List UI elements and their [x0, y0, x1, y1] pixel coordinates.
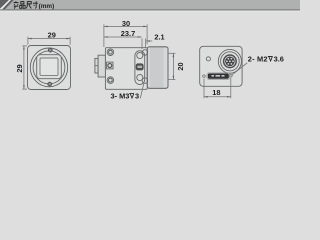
dimension 30 [104, 24, 147, 47]
LED hole [206, 57, 210, 61]
lens mount inner circle [33, 51, 65, 84]
svg-text:2.1: 2.1 [154, 33, 164, 42]
side screw hole top-left [107, 49, 114, 56]
svg-text:30: 30 [122, 19, 130, 28]
M2 hole left [203, 75, 206, 78]
sensor window [40, 58, 58, 75]
M3 hole bottom [137, 74, 143, 80]
front screw top [48, 48, 53, 53]
svg-text:(mm): (mm) [39, 3, 55, 10]
svg-text:3.6: 3.6 [274, 55, 284, 64]
side small square + hole [107, 62, 113, 69]
svg-text:20: 20 [176, 62, 185, 70]
page background [0, 0, 300, 110]
产 [14, 1, 19, 8]
label 2- M2 depth 3.6 [248, 55, 284, 64]
front body [28, 46, 71, 90]
dimension 20 [169, 53, 176, 79]
dimension 29 (front height) [22, 46, 27, 89]
lens section shading [150, 47, 164, 87]
label 3- M3 depth 3 [111, 84, 144, 101]
svg-text:29: 29 [48, 30, 56, 39]
dimension 2.1 [146, 38, 153, 48]
rear connector protrusion inner step [98, 55, 105, 77]
svg-text:3: 3 [135, 92, 139, 101]
lens mount outer circle [30, 48, 67, 87]
connector core with pins [225, 57, 235, 67]
寸 [33, 1, 38, 8]
back body [200, 46, 242, 86]
M3 hole top [137, 52, 143, 58]
side body [105, 48, 147, 90]
front plate hole bottom [142, 78, 148, 84]
dimension 29 (front width) [28, 37, 70, 45]
svg-text:2- M2: 2- M2 [248, 55, 268, 64]
front plate hole top [142, 50, 148, 56]
dimension 18 [204, 78, 231, 98]
header bottom rule [0, 9, 300, 10]
svg-text:23.7: 23.7 [121, 29, 135, 38]
dimension 23.7 [104, 37, 142, 49]
svg-text:18: 18 [212, 88, 220, 97]
port bezel [207, 73, 230, 80]
connector rings [218, 49, 241, 73]
center dark plug [136, 63, 144, 70]
M2 hole right [230, 75, 233, 78]
尺 [26, 2, 31, 9]
svg-text:3- M3: 3- M3 [111, 92, 130, 101]
品 [20, 2, 25, 9]
header title 产品尺寸 (mm) drawn as paths [14, 1, 38, 8]
header corner slash decoration [0, 0, 14, 9]
rear connector protrusion outer step [95, 58, 98, 73]
header bar [0, 0, 300, 10]
leader line [140, 84, 143, 98]
front lens section [147, 47, 168, 89]
side screw hole bottom-left [107, 77, 114, 84]
svg-text:29: 29 [15, 64, 24, 72]
mounting slot stadium [135, 51, 145, 85]
front screw bottom [47, 82, 52, 87]
sensor bezel [37, 55, 62, 79]
port [208, 74, 228, 79]
leader to label [232, 63, 247, 75]
